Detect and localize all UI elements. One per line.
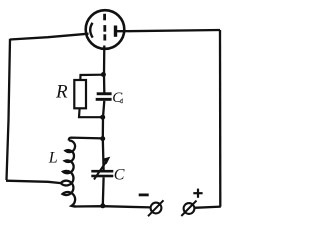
label +: [193, 192, 202, 194]
resistor R (grid leak, box): [74, 80, 86, 108]
node coil branch junction: [100, 136, 105, 141]
capacitor C arrow: [94, 162, 106, 180]
svg-text:C: C: [114, 167, 125, 184]
capacitor C plates (variable): [91, 170, 113, 173]
svg-text:R: R: [55, 81, 68, 102]
wire grid lead (tube bottom to Cg): [103, 46, 106, 93]
node tank bottom junction: [100, 203, 105, 208]
wire anode lead to top-right corner: [117, 30, 220, 31]
terminal - (battery minus): [151, 203, 162, 214]
tube anode bar: [114, 26, 117, 37]
terminal + (battery plus): [184, 203, 195, 214]
wire bottom (tank to - terminal): [74, 206, 151, 207]
svg-text:4: 4: [120, 98, 124, 106]
node grid junction (top of R branch): [101, 72, 106, 77]
svg-text:L: L: [48, 150, 58, 167]
wire left vertical: [7, 39, 11, 180]
tube grid (dashed electrode): [103, 14, 106, 20]
label -: [139, 193, 149, 196]
wire main vertical (Cg to lower junctions): [103, 101, 105, 139]
inductor L (coil, 6 right-bulging loops): [61, 140, 76, 206]
wire right vertical: [219, 30, 222, 207]
wire tank vertical (junction to C): [102, 139, 105, 170]
wire R branch top: [80, 75, 103, 81]
wire top-left (anode supply loop, corner to tube cathode lead): [10, 34, 89, 40]
tube cathode arc: [90, 23, 93, 38]
wire R branch bottom: [79, 108, 103, 117]
wire cathode tap to coil: [6, 181, 61, 183]
wire bottom-right corner to + terminal: [195, 207, 221, 208]
tube envelope U1 (triode circle): [86, 10, 125, 49]
wire C bottom: [102, 177, 105, 206]
wire coil branch top: [69, 138, 103, 141]
node R branch bottom junction: [100, 115, 105, 120]
capacitor Cg plates: [97, 92, 112, 95]
